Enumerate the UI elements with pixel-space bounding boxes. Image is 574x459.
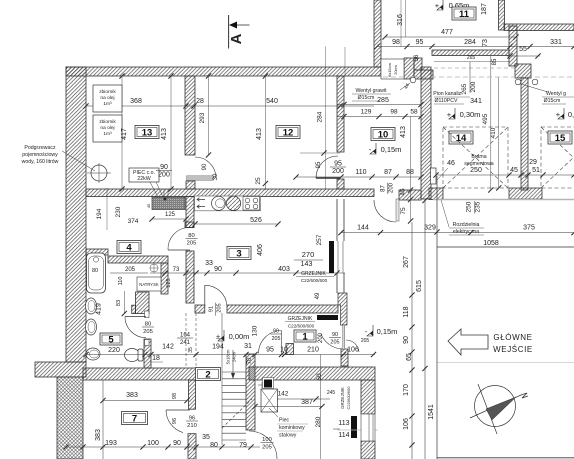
svg-text:98: 98: [390, 109, 398, 116]
svg-text:Podgrzewacz: Podgrzewacz: [24, 145, 56, 151]
svg-text:65: 65: [406, 353, 413, 361]
bath4 north wall b: [108, 256, 168, 263]
svg-text:90: 90: [173, 440, 181, 447]
kitchen counter: [195, 196, 261, 211]
svg-text:2: 2: [205, 369, 210, 380]
svg-text:C22/600/600: C22/600/600: [288, 324, 315, 329]
dim row y177 room10: [296, 176, 421, 178]
svg-text:88: 88: [406, 169, 414, 176]
svg-text:106: 106: [403, 418, 410, 430]
step block a: [414, 58, 422, 70]
svg-text:NATRYSK: NATRYSK: [139, 282, 159, 287]
svg-text:316: 316: [397, 14, 404, 26]
room 15 partial: [548, 131, 572, 144]
svg-text:110: 110: [355, 169, 366, 176]
blocks at bottom of room 14: [509, 188, 542, 199]
svg-text:5x18cm: 5x18cm: [226, 349, 231, 364]
svg-text:205: 205: [187, 241, 197, 247]
right vertical chains: [411, 222, 413, 459]
svg-text:29: 29: [529, 159, 537, 166]
svg-text:83: 83: [116, 300, 122, 306]
svg-text:1541: 1541: [428, 404, 435, 420]
stairs arrow: [232, 350, 234, 376]
svg-text:7: 7: [132, 413, 137, 424]
wall step segment: [414, 70, 433, 79]
svg-text:0,00m: 0,00m: [229, 332, 250, 341]
section mark A: [228, 15, 230, 49]
svg-text:210: 210: [307, 347, 319, 354]
svg-text:28: 28: [196, 98, 204, 105]
svg-text:143: 143: [301, 261, 313, 268]
stove 4 burners: [243, 197, 260, 211]
svg-text:60: 60: [316, 373, 323, 381]
svg-text:75: 75: [400, 207, 407, 215]
top-right vertical wall: [499, 0, 505, 30]
svg-text:12: 12: [283, 127, 294, 138]
sink circle: [212, 196, 226, 210]
main mid horizontal wall: [86, 189, 374, 197]
door 80/205 bath4: [168, 249, 190, 251]
room 1: [294, 330, 316, 342]
right step block: [515, 64, 531, 78]
svg-text:30: 30: [213, 173, 219, 180]
wall between rooms 10 and 14: [421, 67, 431, 199]
corridor wall corner L block: [338, 293, 347, 325]
NATRYSK: [137, 277, 161, 291]
window niche lower right: [361, 414, 375, 441]
vent circles right pair: [515, 79, 521, 85]
garage jamb return block: [429, 188, 443, 200]
svg-text:615: 615: [416, 280, 423, 292]
svg-text:zbiornik: zbiornik: [99, 119, 116, 125]
dim row y106: [86, 105, 374, 107]
radiator 113/114: [351, 416, 357, 438]
vertical dim line 413 room13: [170, 76, 172, 189]
svg-text:205: 205: [272, 336, 281, 342]
svg-text:250: 250: [466, 201, 473, 212]
svg-text:wody, 160 litrów: wody, 160 litrów: [22, 159, 59, 165]
svg-text:45: 45: [510, 167, 518, 174]
svg-text:C22/600/600: C22/600/600: [301, 278, 328, 283]
svg-text:267: 267: [403, 256, 410, 268]
svg-text:200: 200: [470, 81, 477, 92]
svg-text:205: 205: [262, 445, 272, 451]
svg-text:45: 45: [146, 203, 151, 208]
svg-text:zbiornik: zbiornik: [99, 89, 116, 95]
wall room5-room2: [144, 339, 151, 368]
rotated frac 91/205: [215, 303, 217, 316]
svg-text:205: 205: [217, 303, 223, 312]
svg-text:na olej: na olej: [100, 95, 114, 101]
svg-text:125: 125: [166, 278, 172, 287]
stub above lower wall: [286, 344, 294, 355]
room 3: [227, 247, 251, 260]
svg-text:205: 205: [361, 338, 370, 344]
svg-text:0,15m: 0,15m: [377, 327, 398, 336]
leader to heater: [62, 151, 95, 171]
top exterior wall: [66, 67, 381, 76]
wall right of room 14: [521, 78, 528, 190]
bidet: [86, 348, 100, 360]
leader to furnace: [269, 408, 278, 417]
PIEC c.o. box: [129, 168, 159, 182]
lower right wall upper part: [361, 380, 375, 414]
wall stub below door 90/200: [186, 181, 195, 189]
svg-text:0,30m: 0,30m: [460, 110, 481, 119]
lower mid horizontal wall: [249, 367, 375, 380]
room 14: [449, 131, 473, 144]
svg-text:270: 270: [302, 250, 315, 259]
dim row y175 garage: [436, 174, 574, 176]
vertical dim line 293: [208, 76, 210, 155]
svg-text:90: 90: [214, 266, 222, 273]
svg-text:403: 403: [278, 266, 290, 273]
compass axis 1: [470, 395, 521, 418]
door 80/205 room5: [145, 311, 150, 318]
room10 dim rows 285 / 129 98 58: [337, 104, 421, 106]
svg-text:49: 49: [315, 292, 321, 299]
svg-text:Wentyl g: Wentyl g: [546, 91, 566, 97]
svg-text:na olej: na olej: [100, 125, 114, 131]
wall between 13 and 12: [185, 76, 195, 155]
dim row y37 477: [385, 36, 516, 38]
svg-text:495: 495: [482, 113, 489, 124]
svg-text:GRZEJNIK: GRZEJNIK: [340, 387, 345, 409]
sink oval 2: [86, 319, 97, 335]
svg-text:406: 406: [257, 244, 264, 256]
svg-text:210: 210: [187, 423, 197, 429]
svg-text:WEJŚCIE: WEJŚCIE: [493, 345, 533, 354]
svg-text:C22/600/600: C22/600/600: [346, 386, 351, 410]
svg-text:90: 90: [160, 164, 168, 171]
svg-text:375: 375: [523, 225, 535, 232]
lower right wall below niche: [361, 441, 375, 459]
svg-text:200: 200: [318, 332, 324, 343]
dim row y447: [66, 446, 260, 448]
mid vertical wall to top edge: [374, 0, 381, 67]
svg-text:15: 15: [555, 133, 566, 144]
svg-text:98: 98: [392, 39, 400, 46]
svg-text:A: A: [228, 33, 245, 44]
svg-text:58: 58: [410, 109, 418, 116]
svg-text:187: 187: [481, 3, 488, 15]
svg-text:1m³: 1m³: [103, 131, 112, 137]
svg-text:265: 265: [467, 55, 476, 61]
svg-text:220: 220: [108, 347, 120, 354]
shower low stub: [132, 305, 136, 313]
svg-text:35: 35: [202, 434, 210, 441]
mid wall right of door: [399, 190, 421, 200]
svg-text:79: 79: [239, 442, 247, 449]
svg-text:205: 205: [143, 329, 153, 335]
svg-text:33: 33: [205, 260, 213, 267]
svg-text:235: 235: [475, 201, 482, 212]
svg-text:164: 164: [180, 333, 191, 339]
svg-text:383: 383: [126, 392, 138, 399]
svg-text:95: 95: [334, 161, 342, 168]
svg-text:374: 374: [128, 218, 139, 225]
svg-text:95: 95: [316, 161, 322, 168]
svg-text:35: 35: [188, 347, 194, 353]
svg-text:383: 383: [95, 429, 102, 441]
svg-text:13: 13: [142, 127, 153, 138]
svg-text:90: 90: [332, 332, 338, 338]
svg-text:18: 18: [152, 355, 160, 362]
svg-text:pojemnościowy: pojemnościowy: [22, 152, 58, 158]
upper-mid horizontal wall: [432, 50, 509, 56]
bottom border line: [437, 457, 574, 459]
svg-text:245: 245: [327, 390, 336, 396]
room7 north wall: [83, 368, 196, 380]
wc toilet: [125, 349, 140, 362]
east wall edge line lower: [336, 273, 338, 293]
compass rose: [475, 386, 516, 427]
vertical dim lines room14: [490, 56, 492, 190]
svg-text:95: 95: [416, 39, 424, 46]
dim row y232: [341, 232, 574, 234]
svg-text:410: 410: [490, 127, 497, 138]
svg-text:91: 91: [209, 306, 215, 312]
svg-text:GRZEJNIK: GRZEJNIK: [301, 271, 326, 277]
window east: [337, 241, 339, 273]
svg-text:24cm: 24cm: [232, 351, 237, 362]
room 4: [117, 241, 141, 254]
svg-text:73: 73: [173, 267, 180, 273]
left exterior wall lower chevron: [57, 377, 83, 459]
svg-text:170: 170: [403, 384, 410, 396]
grey dashed eaves lines: [434, 67, 520, 69]
arrows to boiler: [197, 198, 205, 202]
svg-text:Pion kanaliz.: Pion kanaliz.: [433, 91, 462, 97]
svg-text:142: 142: [278, 391, 289, 398]
wall right of bath: [186, 251, 194, 303]
svg-text:257: 257: [316, 234, 323, 245]
svg-text:56: 56: [414, 54, 420, 61]
bath4 north wall a: [86, 249, 108, 255]
top-right horizontal wall: [504, 24, 574, 31]
boiler crosshatched: [163, 189, 165, 197]
svg-text:90: 90: [403, 336, 410, 344]
shaft block: [404, 58, 414, 79]
svg-text:205: 205: [330, 340, 339, 346]
svg-text:Ø15cm: Ø15cm: [544, 98, 561, 104]
svg-text:241: 241: [180, 340, 191, 346]
svg-text:Brama: Brama: [471, 154, 486, 160]
stub2 above lower wall: [341, 349, 348, 366]
svg-text:142: 142: [162, 344, 174, 351]
svg-text:20cm: 20cm: [393, 64, 398, 74]
svg-text:1058: 1058: [483, 240, 499, 247]
door room1 west: [281, 331, 283, 354]
svg-text:11: 11: [459, 9, 470, 20]
room 11: [452, 7, 476, 20]
door jamb block: [431, 168, 437, 184]
compass axis 2: [478, 384, 497, 434]
svg-text:200: 200: [158, 172, 170, 179]
svg-text:194: 194: [96, 208, 103, 219]
shower low wall: [136, 292, 150, 314]
svg-text:80: 80: [188, 233, 194, 239]
svg-text:540: 540: [266, 98, 278, 105]
svg-text:280: 280: [315, 416, 322, 427]
left wall stub: [35, 362, 86, 377]
water heater circle: [91, 165, 107, 181]
room 2: [196, 368, 221, 381]
svg-text:413: 413: [161, 128, 168, 140]
dim 125: [152, 218, 186, 220]
door room7: [166, 409, 190, 411]
vertical dim line 413 room10: [410, 117, 412, 222]
dim row y273: [150, 272, 345, 274]
vertical dim line 413+25 room12: [264, 76, 266, 190]
svg-text:129: 129: [361, 109, 372, 116]
svg-text:Rozdzielnia: Rozdzielnia: [453, 222, 480, 228]
svg-text:96: 96: [172, 418, 178, 424]
svg-text:200: 200: [332, 168, 344, 175]
svg-text:Ø15cm: Ø15cm: [358, 95, 375, 101]
shower wall v: [161, 263, 168, 294]
svg-text:284: 284: [317, 111, 324, 122]
room7 east wall stub: [188, 434, 196, 459]
svg-text:46: 46: [447, 160, 455, 167]
dim row y47 top right: [377, 46, 574, 48]
svg-text:250: 250: [470, 167, 482, 174]
svg-text:Piec: Piec: [279, 418, 289, 424]
svg-text:3: 3: [236, 248, 241, 259]
svg-text:70: 70: [247, 357, 253, 364]
svg-text:477: 477: [441, 29, 453, 36]
svg-text:4: 4: [126, 242, 132, 253]
svg-text:125: 125: [165, 212, 176, 218]
svg-text:0,: 0,: [568, 110, 574, 119]
svg-text:413: 413: [256, 128, 263, 140]
svg-text:100: 100: [147, 440, 159, 447]
svg-text:80: 80: [92, 268, 98, 274]
corridor wall seg2: [227, 305, 338, 313]
svg-text:90: 90: [273, 329, 279, 335]
garage door dashed box room 14: [443, 127, 508, 188]
svg-text:elektryczna: elektryczna: [453, 229, 479, 235]
svg-text:293: 293: [199, 112, 206, 123]
svg-text:Ø110PCV: Ø110PCV: [435, 98, 459, 104]
flue shaft detail: [381, 59, 404, 79]
right vertical wall 2: [509, 26, 517, 66]
room 10: [371, 128, 395, 141]
svg-text:413: 413: [400, 126, 407, 138]
svg-text:205: 205: [125, 267, 136, 273]
second garage right: [541, 127, 574, 188]
bathtub: [87, 253, 106, 293]
svg-text:193: 193: [105, 440, 117, 447]
svg-text:96: 96: [189, 416, 195, 422]
wall below kitchen wall: [186, 197, 194, 228]
svg-text:285: 285: [377, 97, 389, 104]
svg-text:14: 14: [456, 133, 467, 144]
svg-text:1m³: 1m³: [103, 101, 112, 107]
wall stub below door 95/200: [337, 179, 344, 189]
stairs: [222, 372, 246, 440]
chimney black: [263, 378, 274, 389]
svg-text:118: 118: [403, 306, 410, 317]
door 95/200 rooms 12-10: [316, 177, 340, 179]
svg-text:106: 106: [347, 347, 359, 354]
svg-text:95: 95: [266, 347, 274, 354]
svg-text:113: 113: [338, 420, 349, 427]
grey ground line below garage: [433, 199, 574, 201]
door 90/200 rooms 13-12: [187, 176, 214, 181]
svg-text:0,15m: 0,15m: [381, 145, 402, 154]
svg-text:51: 51: [532, 167, 540, 174]
door 91/205: [205, 285, 227, 306]
svg-text:387: 387: [301, 399, 313, 406]
svg-text:144: 144: [357, 225, 369, 232]
vertical dim line 417: [121, 76, 123, 189]
east wall edge line upper: [336, 199, 338, 241]
left exterior wall upper: [66, 67, 86, 362]
radiator grzejnik upper: [329, 241, 334, 273]
faint ground line: [437, 362, 574, 364]
door bottom right room2: [249, 431, 277, 459]
svg-text:87: 87: [380, 185, 386, 192]
svg-text:87: 87: [384, 169, 392, 176]
svg-text:GŁÓWNE: GŁÓWNE: [493, 333, 532, 342]
svg-text:22kW: 22kW: [137, 176, 150, 182]
rotated frac 87/200: [386, 183, 388, 195]
room 5: [100, 333, 122, 345]
svg-text:10: 10: [378, 129, 389, 140]
svg-text:114: 114: [338, 432, 349, 439]
furnace box with X: [261, 389, 278, 412]
svg-text:stalowy: stalowy: [279, 433, 297, 439]
svg-text:329: 329: [424, 225, 436, 232]
dim row y354: [86, 354, 375, 356]
svg-text:417: 417: [121, 128, 128, 140]
svg-text:419: 419: [96, 303, 103, 315]
hatched circle: [226, 196, 240, 210]
svg-text:45: 45: [400, 188, 407, 196]
svg-text:368: 368: [130, 98, 142, 105]
svg-text:110: 110: [118, 277, 124, 286]
vent circle left: [410, 77, 416, 83]
room 13: [135, 126, 159, 139]
svg-text:130: 130: [252, 325, 259, 336]
svg-text:73: 73: [482, 39, 489, 47]
svg-text:10: 10: [280, 347, 288, 354]
svg-text:265: 265: [461, 83, 468, 94]
zbiornik box 1: [93, 85, 122, 112]
radiator grzejnik lower: [317, 315, 338, 320]
svg-text:25: 25: [255, 177, 262, 185]
sink oval 1: [86, 298, 97, 314]
GLOWNE WEJSCIE arrow: [448, 329, 488, 355]
stub above door 80/205: [185, 222, 194, 228]
svg-text:GRZEJNIK: GRZEJNIK: [288, 316, 313, 322]
svg-text:Wentyl grawit: Wentyl grawit: [355, 88, 387, 94]
stairs right wall: [246, 354, 255, 430]
svg-text:284: 284: [464, 39, 476, 46]
svg-text:6x15cm: 6x15cm: [387, 62, 392, 77]
svg-text:1: 1: [302, 331, 308, 342]
svg-text:85: 85: [492, 58, 498, 65]
svg-text:55: 55: [519, 46, 527, 53]
east exit door 90/205: [343, 325, 345, 349]
room 12: [276, 126, 300, 139]
svg-text:80: 80: [210, 442, 218, 449]
corridor wall seg1: [195, 305, 205, 313]
zbiornik box 2: [93, 115, 122, 142]
svg-text:80: 80: [145, 322, 151, 328]
svg-text:5: 5: [108, 334, 114, 345]
